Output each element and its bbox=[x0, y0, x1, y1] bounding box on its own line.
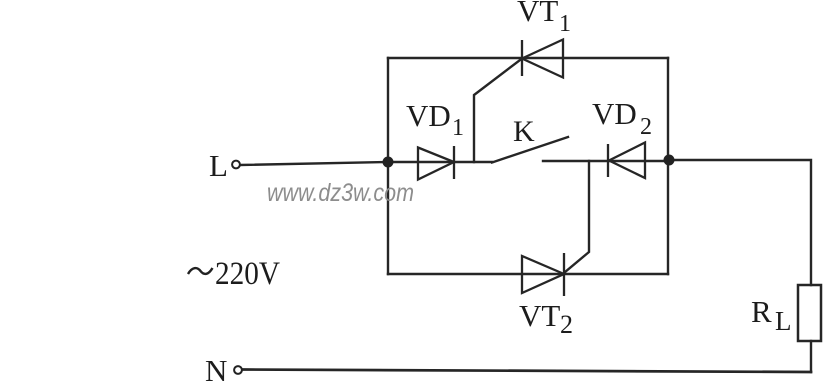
svg-text:www.dz3w.com: www.dz3w.com bbox=[267, 179, 414, 207]
svg-text:K: K bbox=[513, 115, 535, 148]
svg-text:L: L bbox=[209, 148, 228, 183]
svg-text:N: N bbox=[205, 353, 227, 382]
svg-text:220V: 220V bbox=[215, 256, 280, 292]
svg-text:VT: VT bbox=[517, 0, 558, 28]
svg-text:2: 2 bbox=[560, 310, 573, 339]
svg-text:L: L bbox=[775, 306, 792, 336]
svg-text:VT: VT bbox=[519, 298, 560, 333]
svg-text:R: R bbox=[751, 294, 772, 329]
svg-text:1: 1 bbox=[452, 115, 464, 141]
svg-text:VD: VD bbox=[592, 96, 637, 131]
svg-text:VD: VD bbox=[406, 98, 451, 133]
svg-text:1: 1 bbox=[559, 11, 571, 37]
svg-text:2: 2 bbox=[640, 114, 652, 140]
